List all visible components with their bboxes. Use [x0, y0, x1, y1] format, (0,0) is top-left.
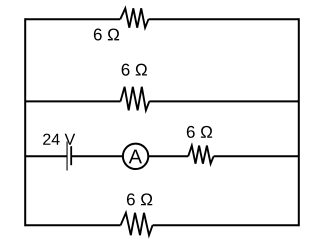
- resistor R3 (middle branch): [188, 146, 213, 164]
- label: 6 Ohm value of R2: [122, 64, 147, 76]
- wire: left vertical bus: [24, 19, 26, 225]
- battery B1 long plate (positive): [66, 142, 68, 171]
- wire: second branch right segment: [149, 100, 298, 102]
- wire: right vertical bus: [298, 19, 300, 225]
- resistor R1 (top branch): [120, 8, 148, 27]
- wire: middle branch from R3 to right bus: [214, 155, 299, 157]
- wire: middle branch from ammeter to R3: [147, 155, 188, 157]
- label: 6 Ohm value of R1: [94, 28, 119, 40]
- label: 6 Ohm value of R4: [127, 193, 152, 205]
- ammeter A1 letter A: [129, 150, 142, 164]
- label: 6 Ohm value of R3: [187, 126, 212, 138]
- ammeter A1 circle: [123, 144, 148, 169]
- resistor R2 (second branch): [121, 87, 150, 111]
- wire: middle branch from battery to ammeter: [71, 155, 124, 157]
- wire: top branch right segment: [149, 18, 299, 20]
- wire: bottom branch left segment: [25, 224, 120, 226]
- wire: top branch left segment: [25, 18, 120, 20]
- resistor R4 (bottom branch): [121, 213, 153, 235]
- wire: middle branch from left bus to battery: [25, 155, 66, 157]
- battery B1 short plate (negative): [70, 146, 72, 165]
- wire: second branch left segment: [25, 100, 120, 102]
- wire: bottom branch right segment: [153, 224, 299, 226]
- label: 24 V battery value: [43, 134, 75, 145]
